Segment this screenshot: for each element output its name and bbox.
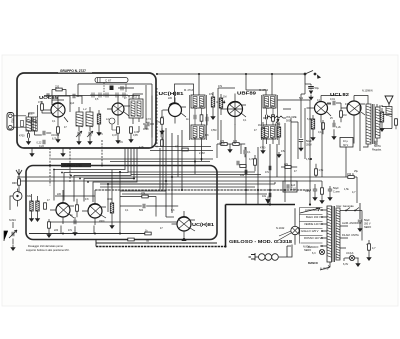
capacitor xyxy=(145,125,147,129)
coupling cap xyxy=(333,101,335,105)
svg-text:1M: 1M xyxy=(258,124,261,127)
ground xyxy=(77,139,81,144)
ground xyxy=(97,130,101,135)
svg-text:50µ: 50µ xyxy=(315,86,320,90)
wires inside box2 xyxy=(29,172,149,234)
svg-text:ROSSO 110 V: ROSSO 110 V xyxy=(304,236,321,240)
svg-text:GRUPPO N.2755: GRUPPO N.2755 xyxy=(62,164,82,167)
capacitor xyxy=(206,117,208,121)
ground xyxy=(129,137,133,142)
resistors under IF1 xyxy=(147,122,149,126)
switch S1 xyxy=(305,71,313,75)
svg-text:GRUPPO N. 2727: GRUPPO N. 2727 xyxy=(60,69,86,73)
trimmers below xyxy=(76,131,93,144)
resistor xyxy=(380,112,383,122)
misc value labels xyxy=(47,97,368,246)
svg-text:500: 500 xyxy=(139,209,144,212)
svg-text:L.2: L.2 xyxy=(83,108,87,111)
tube UCL82 pentode xyxy=(347,101,361,115)
resistor on box edge xyxy=(128,238,134,241)
resistor xyxy=(233,143,239,146)
svg-text:750: 750 xyxy=(11,118,15,123)
wire down from switch to cap xyxy=(305,74,311,86)
resistor xyxy=(56,88,62,91)
caps/resistors around osc tubes xyxy=(74,220,76,224)
cap 0,1 xyxy=(244,150,246,154)
svg-text:VERDE 140 V: VERDE 140 V xyxy=(304,222,321,226)
ground xyxy=(36,216,40,221)
svg-text:BIANCO: BIANCO xyxy=(308,262,318,265)
feedback wires xyxy=(305,103,360,177)
tube osc2 xyxy=(88,204,102,218)
resistor xyxy=(145,232,151,235)
tube mixer xyxy=(112,103,124,115)
svg-text:47n: 47n xyxy=(205,134,210,137)
tube UC(H)81 bottom xyxy=(177,217,191,231)
svg-text:Fissaggio d'olt dal telaio: Fissaggio d'olt dal telaio perno xyxy=(28,244,64,248)
resistor xyxy=(44,203,47,209)
wire B+ top xyxy=(156,73,305,75)
tube osc1 xyxy=(56,203,70,217)
ground xyxy=(358,226,362,231)
tap wires + terminals xyxy=(320,210,327,246)
svg-text:47n: 47n xyxy=(345,103,350,106)
resistor 6,7k below xyxy=(57,127,60,133)
hatched resistors xyxy=(30,201,33,211)
resistor xyxy=(277,127,280,137)
pentode wires xyxy=(341,96,365,124)
grid arrow xyxy=(221,100,225,103)
heavy bottom lines xyxy=(96,197,295,247)
tube shading arcs xyxy=(53,102,240,220)
resistor xyxy=(76,205,79,211)
ground xyxy=(211,114,215,119)
svg-text:470k: 470k xyxy=(275,123,281,126)
box GRUPPO N.2755 xyxy=(26,163,217,240)
ground xyxy=(11,245,15,250)
svg-text:4700: 4700 xyxy=(19,135,25,138)
tube UBF89 xyxy=(228,102,243,117)
IF transformer T1 xyxy=(128,94,143,124)
resistor xyxy=(48,222,51,228)
svg-text:1M: 1M xyxy=(223,96,226,99)
ground xyxy=(367,255,371,260)
svg-text:Inter. Generale: Inter. Generale xyxy=(336,204,354,208)
svg-text:4700: 4700 xyxy=(260,147,266,150)
triode wires xyxy=(307,96,332,123)
svg-text:0,73: 0,73 xyxy=(146,118,151,121)
capacitor xyxy=(328,189,332,191)
ground xyxy=(320,198,324,203)
capacitor xyxy=(299,140,303,142)
box GRUPPO N.2727 xyxy=(17,68,156,149)
svg-text:NERO: NERO xyxy=(304,249,311,252)
ground xyxy=(311,135,315,140)
svg-text:supporto bobina in alto po: supporto bobina in alto posizione M.F. xyxy=(26,248,70,252)
resistor 4,7k xyxy=(254,159,257,165)
triode cathode parts xyxy=(311,119,314,129)
svg-text:UCC85: UCC85 xyxy=(39,95,59,100)
trimmer bottom left xyxy=(4,219,17,250)
capacitor xyxy=(375,141,377,145)
svg-text:UCL82: UCL82 xyxy=(330,92,350,97)
cap on x270 at 195 xyxy=(269,193,271,197)
svg-text:GIALLO 125 V: GIALLO 125 V xyxy=(301,229,319,233)
ground xyxy=(313,195,317,200)
capacitor xyxy=(333,123,335,127)
svg-text:UC(H)81: UC(H)81 xyxy=(192,222,215,227)
ground xyxy=(160,129,164,134)
wire bus y184 xyxy=(100,182,275,184)
svg-text:ALIM. ANODICA: ALIM. ANODICA xyxy=(342,221,361,225)
svg-text:M. 2714: M. 2714 xyxy=(259,89,269,92)
svg-text:FILAM. UNITA: FILAM. UNITA xyxy=(342,233,359,237)
trimmer caps row under C67 xyxy=(90,94,128,96)
resistor cluster right of IF2 xyxy=(211,97,214,107)
svg-text:180: 180 xyxy=(379,105,384,108)
svg-text:47n: 47n xyxy=(85,198,90,201)
ground xyxy=(30,216,34,221)
capacitor xyxy=(89,132,91,136)
svg-text:6,3V: 6,3V xyxy=(343,263,348,266)
svg-text:C 67: C 67 xyxy=(105,79,112,83)
svg-text:1,5k: 1,5k xyxy=(319,169,324,172)
svg-text:R68: R68 xyxy=(12,182,17,185)
750 ohm terminal block xyxy=(7,113,14,131)
resistor xyxy=(36,201,39,211)
svg-text:501: 501 xyxy=(299,97,304,100)
svg-text:C.arm: C.arm xyxy=(333,191,340,194)
svg-text:N.1398/N: N.1398/N xyxy=(362,90,373,93)
cathode resistors 470/470 xyxy=(221,143,227,146)
resistor xyxy=(130,127,133,133)
50uF 350V electrolytic right xyxy=(359,203,361,219)
svg-text:1,2k: 1,2k xyxy=(336,126,341,129)
primary taps labels xyxy=(301,208,321,249)
ground xyxy=(116,138,120,143)
speaker xyxy=(380,96,397,129)
coil L1 hatched pair xyxy=(26,117,37,131)
ground xyxy=(299,146,303,151)
svg-text:4700: 4700 xyxy=(143,128,149,131)
svg-text:N.1042: N.1042 xyxy=(276,226,285,230)
ground xyxy=(261,148,265,153)
secondary labels xyxy=(342,221,361,255)
svg-text:4,7: 4,7 xyxy=(372,247,376,250)
detector load resistors xyxy=(261,128,264,138)
resistor xyxy=(368,244,371,250)
ground xyxy=(356,261,360,266)
AVC / audio verticals xyxy=(246,74,310,204)
svg-text:Regolaz.: Regolaz. xyxy=(372,149,382,152)
B+ cap 50uF350V left xyxy=(301,84,305,138)
cap + ground under coil xyxy=(28,133,30,137)
resistor xyxy=(321,188,324,194)
ground xyxy=(27,139,31,144)
svg-text:150 Ω: 150 Ω xyxy=(347,173,354,176)
resistor xyxy=(182,148,188,151)
resistor xyxy=(322,123,325,129)
transformer core xyxy=(327,206,340,262)
svg-text:0,95: 0,95 xyxy=(133,134,138,137)
wires around tube1 xyxy=(43,96,70,125)
svg-text:0,1M: 0,1M xyxy=(219,143,225,146)
resistor xyxy=(285,166,291,169)
tuning scale C67 xyxy=(95,78,128,97)
capacitor xyxy=(12,232,14,236)
voltage selector N.1042 xyxy=(276,208,300,244)
ground xyxy=(332,134,336,139)
ground xyxy=(47,232,51,237)
wire bus y174.5 xyxy=(131,174,261,176)
svg-text:1M: 1M xyxy=(343,114,346,117)
ground arrows under box1 bottom edge xyxy=(30,148,65,156)
resistor 470 grid xyxy=(41,104,44,110)
capacitor xyxy=(78,132,80,136)
wire bus y161.5 xyxy=(110,161,210,163)
svg-text:6,3V: 6,3V xyxy=(118,141,123,144)
10u 30V box xyxy=(340,138,353,148)
resistor 0,47 xyxy=(117,127,120,133)
svg-text:UC(H): UC(H) xyxy=(346,251,353,255)
svg-text:0,5M: 0,5M xyxy=(211,129,216,132)
FM coil pair xyxy=(76,107,93,131)
ground xyxy=(277,152,281,157)
ground xyxy=(328,195,332,200)
resistor xyxy=(315,169,318,175)
svg-text:0,47: 0,47 xyxy=(112,134,117,137)
IF transformer T2 M.2713 xyxy=(175,75,207,145)
selector arrow xyxy=(300,208,320,213)
resistor xyxy=(200,115,203,121)
svg-text:220: 220 xyxy=(55,86,60,89)
UC(H)81 bottom internals xyxy=(172,211,196,237)
mid resistor 500 xyxy=(143,204,145,208)
resistor xyxy=(110,203,113,213)
150 ohm resistor on line xyxy=(348,176,354,179)
ground xyxy=(88,139,92,144)
mixer tube wires xyxy=(107,95,130,125)
cap at anode xyxy=(73,94,75,98)
grid resistor pentode xyxy=(340,111,343,117)
svg-text:UBF89: UBF89 xyxy=(237,91,257,96)
right resistor + nota xyxy=(372,105,384,152)
resistor xyxy=(161,140,164,146)
small series comp xyxy=(21,121,24,127)
svg-text:220: 220 xyxy=(57,193,62,196)
wire heater y177 xyxy=(17,176,357,178)
C65 cluster xyxy=(313,189,317,191)
volume pot xyxy=(263,116,297,123)
svg-text:350V: 350V xyxy=(306,144,312,147)
svg-text:47n: 47n xyxy=(265,171,270,174)
capacitor C electrolytic 50uF B+ xyxy=(308,86,319,100)
svg-text:NERO: NERO xyxy=(364,226,371,229)
vertical drops from top section to bus xyxy=(159,148,161,190)
svg-text:4,7k: 4,7k xyxy=(249,158,254,161)
wire AVC y190 dark xyxy=(95,189,311,191)
resistor xyxy=(272,115,275,121)
svg-text:0,1: 0,1 xyxy=(318,131,322,134)
svg-text:UC(H)81: UC(H)81 xyxy=(159,91,185,96)
secondary taps xyxy=(340,226,348,248)
svg-text:0,22: 0,22 xyxy=(39,145,44,148)
svg-text:2µF: 2µF xyxy=(70,102,75,105)
mains cord + plug xyxy=(249,245,293,261)
svg-text:470: 470 xyxy=(233,140,238,143)
ground xyxy=(309,95,313,100)
wire bus y159 xyxy=(51,158,213,160)
resistor xyxy=(219,98,222,108)
dashed shaft xyxy=(156,88,158,148)
svg-text:GELOSO - MOD. G.3318: GELOSO - MOD. G.3318 xyxy=(229,239,293,244)
resistor xyxy=(240,165,246,168)
wire bus y187 xyxy=(100,186,255,188)
capacitor xyxy=(161,133,163,137)
resistor xyxy=(395,119,398,125)
capacitor xyxy=(358,220,362,222)
svg-text:0,1: 0,1 xyxy=(247,151,251,154)
resistor at antenna xyxy=(18,179,21,185)
svg-text:2000: 2000 xyxy=(99,220,105,223)
tube spokes xyxy=(228,102,242,117)
ground xyxy=(380,126,384,131)
1uF box xyxy=(283,181,297,192)
svg-text:25µ: 25µ xyxy=(354,170,359,173)
osc coil with core xyxy=(10,189,22,211)
IF transformer T3 M.2714 xyxy=(246,74,278,144)
caption under box2 xyxy=(26,244,70,252)
small AM antenna xyxy=(16,169,22,180)
wire bus y181 xyxy=(17,180,322,182)
svg-text:10 µ: 10 µ xyxy=(343,140,348,143)
svg-text:4,7k: 4,7k xyxy=(139,146,144,149)
svg-text:5,6k: 5,6k xyxy=(307,118,312,121)
svg-text:4,75: 4,75 xyxy=(98,133,103,136)
capacitor xyxy=(287,184,289,188)
ground xyxy=(73,230,77,235)
capacitor xyxy=(237,161,239,165)
ground xyxy=(56,137,60,142)
ground xyxy=(228,147,232,152)
svg-text:L.1: L.1 xyxy=(29,112,33,116)
pilot lamp xyxy=(349,255,354,260)
capacitor xyxy=(245,170,247,174)
svg-text:M. 2713: M. 2713 xyxy=(184,89,194,92)
label ladder frame xyxy=(300,208,323,244)
wire bus y194 xyxy=(122,193,267,195)
4,7 resistor right xyxy=(368,240,370,244)
capacitor xyxy=(194,115,196,119)
capacitor xyxy=(266,115,268,119)
resistor xyxy=(97,114,100,124)
svg-text:220: 220 xyxy=(54,229,59,232)
wire bus y172 xyxy=(128,171,255,173)
nested corner wires from box1 into box2 tubes xyxy=(54,148,125,201)
svg-text:30 V: 30 V xyxy=(343,144,348,147)
svg-text:6,3: 6,3 xyxy=(312,252,316,255)
tube UCL82 triode xyxy=(315,102,328,115)
capacitor xyxy=(43,131,45,135)
grid resistor xyxy=(161,118,164,124)
resistor xyxy=(142,195,148,198)
capacitor xyxy=(47,93,49,97)
svg-text:1,5k: 1,5k xyxy=(344,188,349,191)
tube UC(H)81 top xyxy=(169,104,182,117)
svg-text:4,7: 4,7 xyxy=(352,191,356,194)
svg-text:220: 220 xyxy=(168,97,173,100)
svg-text:1,5k: 1,5k xyxy=(306,158,311,161)
cap 0,22 bottom xyxy=(43,140,45,144)
svg-text:N.824: N.824 xyxy=(9,219,16,222)
misc mid components xyxy=(269,166,271,170)
svg-text:BLEU 160 V: BLEU 160 V xyxy=(306,215,321,219)
svg-text:C65: C65 xyxy=(305,190,310,193)
svg-text:47n: 47n xyxy=(68,229,73,232)
osc tube internals xyxy=(50,197,74,224)
tube UCC85 xyxy=(51,103,65,117)
svg-text:0,01: 0,01 xyxy=(330,98,335,101)
